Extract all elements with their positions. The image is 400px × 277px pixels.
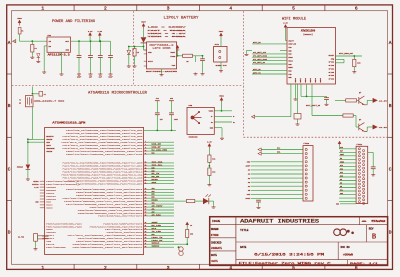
svg-text:>DRAWN: >DRAWN	[343, 252, 353, 256]
svg-text:3V3: 3V3	[170, 98, 173, 100]
svg-text:LIPOLY BATTERY: LIPOLY BATTERY	[164, 17, 199, 21]
svg-text:SCL: SCL	[340, 189, 343, 191]
svg-text:GND: GND	[336, 204, 339, 206]
svg-text:D10: D10	[340, 175, 343, 177]
svg-text:36: 36	[145, 240, 147, 242]
svg-text:XOUT: XOUT	[46, 144, 52, 147]
svg-text:32.768: 32.768	[18, 237, 24, 239]
svg-text:C: C	[389, 166, 392, 172]
svg-text:5: 5	[292, 6, 295, 12]
svg-text:SPI_WIFI_SS: SPI_WIFI_SS	[253, 62, 265, 64]
svg-text:Q3: Q3	[19, 103, 21, 105]
svg-text:POWER AND FILTERING: POWER AND FILTERING	[52, 20, 95, 24]
svg-text:27: 27	[145, 209, 147, 211]
svg-text:XOUT32: XOUT32	[32, 184, 38, 186]
svg-text:FTR16: FTR16	[304, 142, 311, 145]
svg-text:GND3: GND3	[46, 207, 54, 210]
svg-text:AP2112K-3.3: AP2112K-3.3	[48, 53, 71, 56]
svg-text:>DATE: >DATE	[211, 260, 219, 263]
svg-text:GPIO3: GPIO3	[329, 65, 334, 67]
svg-text:B: B	[389, 103, 392, 109]
svg-text:37: 37	[145, 243, 147, 245]
svg-text:MOSI: MOSI	[246, 198, 250, 200]
svg-text:CHIP_EN: CHIP_EN	[288, 44, 296, 46]
svg-text:SSN: SSN	[288, 64, 291, 66]
svg-text:GND5: GND5	[320, 78, 322, 82]
svg-text:A0_DAC: A0_DAC	[152, 213, 163, 216]
svg-text:D-: D-	[233, 116, 235, 118]
svg-text:VBAT: VBAT	[170, 51, 176, 54]
svg-text:B: B	[372, 234, 377, 242]
svg-text:WIFI_WING_RST: WIFI_WING_RST	[339, 53, 354, 55]
svg-text:VIO: VIO	[288, 47, 291, 49]
svg-text:WIFI_TX: WIFI_TX	[253, 72, 261, 74]
svg-text:DATE: DATE	[211, 254, 218, 257]
svg-text:AREF: AREF	[246, 165, 250, 168]
svg-text:3V3: 3V3	[340, 147, 343, 149]
svg-text:14: 14	[145, 168, 147, 170]
svg-text:FTR12: FTR12	[357, 143, 363, 146]
svg-text:GPIO8: GPIO8	[329, 79, 334, 81]
svg-text:MISO: MISO	[288, 57, 292, 59]
svg-text:PROG: PROG	[170, 55, 176, 58]
svg-text:38: 38	[145, 246, 147, 248]
svg-text:SWDIO: SWDIO	[152, 245, 161, 248]
svg-text:KTOWN: KTOWN	[211, 234, 219, 237]
svg-text:B: B	[8, 103, 11, 109]
svg-text:PA31/SWDIO/SERCOM1_PAD3/TCC1_W: PA31/SWDIO/SERCOM1_PAD3/TCC1_WO1/EXTINT1…	[73, 246, 144, 249]
svg-text:1UF: 1UF	[89, 77, 92, 79]
svg-text:+3.3V: +3.3V	[379, 127, 389, 129]
svg-text:MCP73831-2ACI53: MCP73831-2ACI53	[146, 70, 178, 73]
svg-text:PA13/SERCOM2_PAD1/SERCOM4_PAD1: PA13/SERCOM2_PAD1/SERCOM4_PAD1/TCC2_WO1	[76, 182, 143, 185]
svg-text:GND: GND	[288, 77, 291, 79]
svg-text:DOC N9: DOC N9	[341, 246, 351, 249]
svg-text:PA09/I2C/AIN17/SERCOM0_PAD1/SE: PA09/I2C/AIN17/SERCOM0_PAD1/SERCOM2_PAD1…	[66, 153, 144, 156]
svg-text:18: 18	[145, 179, 147, 181]
svg-text:CHECKED: CHECKED	[211, 241, 222, 244]
svg-text:6/15/2016 3:24:56 PM: 6/15/2016 3:24:56 PM	[254, 253, 324, 257]
svg-text:EN: EN	[340, 158, 342, 160]
svg-text:PAGE: 1/1: PAGE: 1/1	[350, 261, 378, 265]
svg-text:F1: F1	[21, 31, 23, 33]
svg-text:17: 17	[145, 176, 147, 178]
svg-text:D2: D2	[152, 152, 155, 155]
svg-text:VBAT: VBAT	[340, 153, 344, 156]
svg-text:16: 16	[145, 173, 147, 175]
svg-text:LIPO CHGR: LIPO CHGR	[153, 46, 173, 49]
svg-text:D+: D+	[233, 122, 235, 124]
svg-text:22: 22	[145, 194, 147, 196]
svg-text:WIFI MODULE: WIFI MODULE	[282, 17, 306, 21]
svg-text:25: 25	[145, 203, 147, 205]
svg-text:A: A	[8, 40, 11, 46]
svg-text:D5: D5	[340, 186, 342, 188]
svg-text:XTAL2: XTAL2	[42, 237, 49, 240]
svg-text:32: 32	[145, 228, 147, 230]
svg-text:D-: D-	[211, 115, 213, 118]
svg-text:GND: GND	[247, 162, 250, 164]
svg-text:A2: A2	[248, 177, 250, 180]
svg-text:D: D	[389, 230, 392, 236]
svg-text:D9: D9	[340, 179, 342, 181]
svg-text:3: 3	[167, 265, 170, 271]
svg-text:PB31/SERCOM5: PB31/SERCOM5	[46, 246, 67, 249]
svg-text:TERM = 50mA: TERM = 50mA	[148, 35, 188, 38]
svg-text:1: 1	[41, 265, 44, 271]
svg-text:3V: 3V	[190, 225, 192, 227]
svg-text:(MODULE): (MODULE)	[303, 33, 313, 36]
svg-text:IRQ: IRQ	[331, 58, 334, 60]
svg-text:D11: D11	[340, 172, 343, 174]
svg-text:A: A	[389, 40, 392, 46]
svg-text:A3: A3	[248, 181, 250, 184]
svg-text:12: 12	[145, 162, 147, 164]
svg-text:10: 10	[145, 150, 147, 152]
svg-text:FILE:Feather Zero WING rev C: FILE:Feather Zero WING rev C	[239, 261, 331, 265]
svg-text:PG: PG	[35, 48, 37, 50]
svg-text:35: 35	[145, 237, 147, 239]
svg-text:ISSUE: ISSUE	[212, 220, 220, 223]
svg-text:2: 2	[104, 6, 107, 12]
svg-text:1UF: 1UF	[160, 119, 163, 121]
svg-text:GPIO5: GPIO5	[329, 72, 334, 74]
svg-text:SPI_WIFI_SCK: SPI_WIFI_SCK	[253, 52, 267, 54]
svg-text:DMG_3415U-7 MOS: DMG_3415U-7 MOS	[34, 100, 65, 103]
svg-text:GPIO6: GPIO6	[329, 75, 334, 77]
svg-text:23: 23	[145, 197, 147, 199]
svg-text:WIFI_RX: WIFI_RX	[253, 69, 261, 71]
svg-text:D12: D12	[340, 168, 343, 170]
svg-text:RXD: RXD	[288, 71, 291, 73]
svg-text:GND: GND	[35, 202, 38, 204]
svg-text:Q1: Q1	[359, 92, 361, 94]
svg-text:34: 34	[145, 234, 147, 236]
svg-text:STAT: STAT	[148, 60, 154, 63]
svg-text:ATSAMD21G MICROCONTROLLER: ATSAMD21G MICROCONTROLLER	[88, 92, 147, 96]
svg-text:D6: D6	[340, 182, 342, 184]
svg-text:GND: GND	[288, 50, 291, 52]
svg-text:10UF: 10UF	[77, 77, 81, 79]
svg-text:VDDIN: VDDIN	[46, 150, 53, 153]
svg-text:MBR120: MBR120	[17, 167, 23, 169]
svg-text:A5: A5	[248, 189, 250, 192]
svg-text:GND4: GND4	[315, 78, 317, 82]
svg-text:SPI_WIFI_MISO: SPI_WIFI_MISO	[253, 56, 267, 58]
svg-text:1: 1	[41, 6, 44, 12]
svg-text:10UF: 10UF	[174, 119, 178, 121]
svg-text:C: C	[8, 166, 11, 172]
svg-text:30: 30	[145, 222, 147, 224]
svg-text:DATE: DATE	[240, 246, 247, 249]
svg-text:A1: A1	[248, 173, 250, 176]
svg-text:XIN32: XIN32	[33, 181, 38, 183]
svg-text:3: 3	[167, 6, 170, 12]
svg-text:TXD: TXD	[288, 74, 291, 76]
svg-text:ADAFRUIT INDUSTRIES: ADAFRUIT INDUSTRIES	[240, 219, 319, 225]
svg-text:RESET: RESET	[329, 55, 335, 57]
svg-text:VBATT: VBATT	[288, 39, 294, 42]
svg-text:D: D	[8, 230, 11, 236]
svg-text:15: 15	[145, 171, 147, 173]
svg-text:PA02/AIN0/DAC_VOUT/EXTINT2: PA02/AIN0/DAC_VOUT/EXTINT2	[98, 215, 143, 218]
svg-text:GND2: GND2	[305, 78, 307, 82]
svg-text:P1: P1	[19, 100, 21, 102]
svg-text:GND1: GND1	[300, 78, 302, 82]
svg-text:A4: A4	[248, 185, 250, 188]
svg-text:D13: D13	[340, 165, 343, 167]
svg-text:33: 33	[145, 231, 147, 233]
svg-text:31: 31	[145, 225, 147, 227]
svg-text:WIFI_EN: WIFI_EN	[253, 42, 261, 44]
svg-text:JST2: JST2	[214, 43, 219, 46]
svg-text:2: 2	[104, 265, 107, 271]
svg-text:REV: REV	[369, 228, 374, 231]
svg-text:SCL: SCL	[277, 148, 280, 150]
svg-text:24: 24	[145, 200, 147, 202]
svg-text:6: 6	[355, 6, 358, 12]
svg-text:⊙ 5W8: ⊙ 5W8	[362, 220, 388, 223]
svg-text:Q2: Q2	[359, 119, 361, 121]
svg-text:11: 11	[145, 153, 147, 155]
svg-text:SPI_WIFI_MOSI: SPI_WIFI_MOSI	[253, 59, 267, 61]
svg-text:MOSI: MOSI	[288, 60, 292, 62]
svg-text:GND3: GND3	[310, 78, 312, 82]
svg-text:PE: PE	[44, 94, 46, 96]
svg-text:A0: A0	[248, 169, 250, 172]
svg-text:WAKE: WAKE	[288, 66, 292, 69]
svg-text:WIFI_SHIFT_EN: WIFI_SHIFT_EN	[306, 105, 320, 107]
svg-text:1UF: 1UF	[99, 77, 102, 79]
svg-text:VBUS: VBUS	[340, 161, 344, 163]
svg-text:19: 19	[145, 182, 147, 184]
svg-text:3V3: 3V3	[156, 98, 159, 100]
svg-text:28: 28	[145, 212, 147, 214]
svg-text:RST: RST	[340, 151, 343, 153]
svg-text:GPIO1: GPIO1	[329, 62, 334, 64]
svg-text:13: 13	[145, 165, 147, 167]
svg-text:DRAWN: DRAWN	[211, 228, 219, 231]
svg-text:GPIO4: GPIO4	[329, 68, 334, 70]
svg-text:ATSAMD21G18_QFN: ATSAMD21G18_QFN	[52, 121, 86, 124]
svg-text:21: 21	[145, 191, 147, 193]
svg-text:TITLE: TITLE	[240, 229, 249, 232]
svg-text:26: 26	[145, 206, 147, 208]
svg-text:29: 29	[145, 215, 147, 217]
svg-text:10UF: 10UF	[108, 77, 112, 79]
svg-text:GND0: GND0	[295, 78, 297, 82]
svg-text:20: 20	[145, 188, 147, 190]
svg-text:4: 4	[229, 6, 232, 12]
svg-text:JOHNGATE: JOHNGATE	[211, 247, 223, 250]
svg-text:MICROUSB: MICROUSB	[189, 137, 199, 139]
svg-text:+3.3V: +3.3V	[379, 100, 389, 102]
